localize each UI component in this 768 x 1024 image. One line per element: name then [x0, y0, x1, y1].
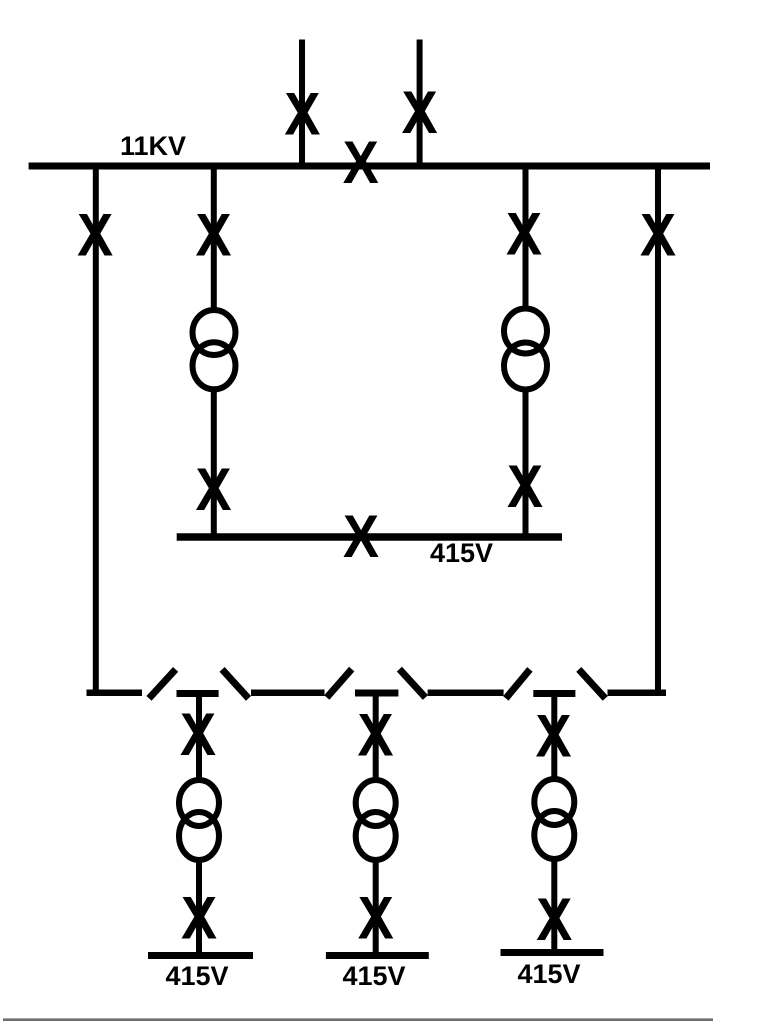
svg-text:415V: 415V — [165, 961, 228, 991]
breaker CB-IN2 on incoming feeder 2 — [402, 79, 438, 146]
wire outer left feeder — [93, 166, 99, 692]
switch blade S5 — [506, 669, 530, 698]
wire tie line segment A — [251, 690, 325, 697]
wire substation feeder 1 upper — [196, 696, 202, 779]
node tap bar 1 — [177, 690, 219, 697]
breaker CB4 on inner right feeder LV side — [507, 453, 543, 520]
wire substation feeder 2 upper — [373, 696, 379, 779]
busbar 415V substation 2 — [326, 952, 429, 959]
node tap bar 3 — [533, 690, 575, 697]
svg-text:11KV: 11KV — [120, 131, 186, 161]
breaker CB3 on inner right feeder — [506, 201, 542, 268]
svg-text:X: X — [507, 453, 543, 520]
transformer T4 primary winding — [356, 780, 396, 826]
svg-text:415V: 415V — [517, 959, 580, 989]
border bottom separator line — [3, 1018, 713, 1021]
transformer T3 primary winding — [179, 780, 219, 826]
svg-text:X: X — [536, 886, 572, 953]
svg-text:X: X — [402, 79, 438, 146]
wire outer right feeder — [655, 166, 661, 692]
svg-text:X: X — [357, 702, 393, 769]
breaker CB5 on 415V busbar — [343, 503, 379, 570]
breaker CB7 feeder 1 LV — [181, 885, 217, 952]
wire substation feeder 3 lower — [551, 859, 557, 952]
wire substation feeder 2 lower — [373, 860, 379, 955]
wire incoming feeder 2 — [417, 40, 423, 167]
wire inner left feeder LV side — [211, 390, 217, 537]
svg-text:X: X — [195, 456, 231, 523]
transformer T1 secondary winding — [193, 342, 236, 389]
wire tie line left foot — [87, 690, 143, 697]
busbar 11KV — [29, 163, 710, 170]
svg-text:X: X — [535, 703, 571, 770]
breaker CB11 feeder 3 LV — [536, 886, 572, 953]
wire incoming feeder 1 — [299, 40, 305, 167]
wire inner left feeder HV side — [211, 166, 217, 311]
svg-text:X: X — [195, 202, 231, 269]
switch blade S2 — [222, 669, 248, 698]
breaker CB-R on outer right feeder — [640, 202, 676, 269]
busbar 415V main — [177, 533, 562, 541]
wire inner right feeder LV side — [523, 390, 529, 537]
svg-text:X: X — [640, 202, 676, 269]
switch blade S6 — [579, 669, 606, 698]
svg-text:X: X — [284, 81, 320, 148]
wire tie line right foot — [608, 690, 667, 697]
switch blade S4 — [399, 669, 425, 697]
svg-text:415V: 415V — [342, 961, 405, 991]
breaker CB-L on outer left feeder — [77, 202, 113, 269]
svg-text:X: X — [343, 129, 379, 196]
svg-text:X: X — [358, 885, 394, 952]
wire substation feeder 1 lower — [196, 860, 202, 955]
svg-text:X: X — [77, 202, 113, 269]
wire tie line segment B — [428, 690, 504, 697]
transformer T2 primary winding — [504, 309, 547, 354]
svg-text:X: X — [181, 885, 217, 952]
node tap bar 2 — [355, 690, 398, 697]
breaker CB6 feeder 1 — [180, 701, 216, 768]
wire inner right feeder HV side — [523, 166, 529, 311]
transformer T5 secondary winding — [534, 811, 574, 859]
transformer T5 primary winding — [534, 779, 574, 825]
breaker CB1 on inner left feeder — [195, 202, 231, 269]
breaker CB10 feeder 3 — [535, 703, 571, 770]
svg-text:X: X — [506, 201, 542, 268]
busbar 415V substation 3 — [501, 949, 604, 956]
transformer T2 secondary winding — [504, 343, 547, 390]
svg-text:X: X — [343, 503, 379, 570]
breaker CB9 feeder 2 LV — [358, 885, 394, 952]
transformer T3 secondary winding — [179, 812, 219, 860]
wire substation feeder 3 upper — [551, 696, 557, 779]
transformer T4 secondary winding — [356, 812, 396, 860]
breaker CB-TIE bus coupler — [343, 129, 379, 196]
busbar 415V substation 1 — [148, 952, 253, 959]
breaker CB-IN1 on incoming feeder 1 — [284, 81, 320, 148]
svg-text:415V: 415V — [430, 538, 493, 568]
svg-text:X: X — [180, 701, 216, 768]
switch blade S1 — [149, 669, 176, 698]
switch blade S3 — [327, 669, 352, 697]
transformer T1 primary winding — [193, 310, 236, 355]
breaker CB2 on inner left feeder LV side — [195, 456, 231, 523]
breaker CB8 feeder 2 — [357, 702, 393, 769]
